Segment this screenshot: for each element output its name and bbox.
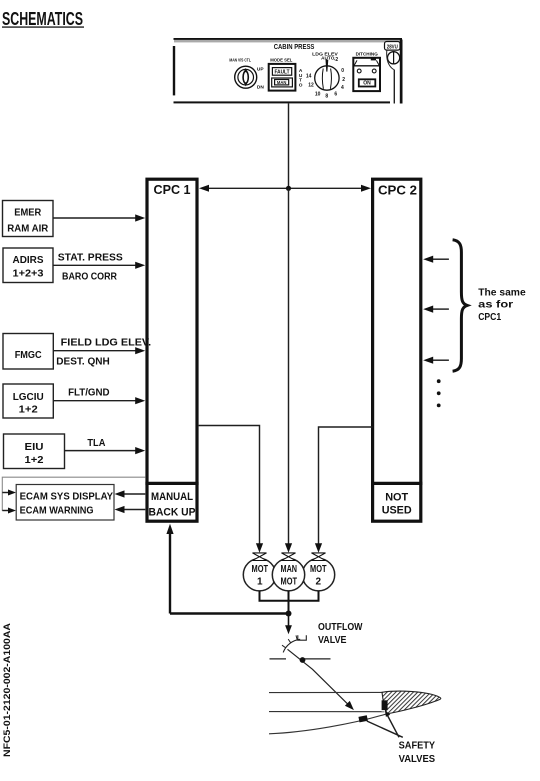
outflow valve arc — [282, 635, 306, 652]
svg-text:LGCIU: LGCIU — [13, 391, 44, 403]
svg-text:FLT/GND: FLT/GND — [68, 387, 110, 399]
svg-text:6: 6 — [334, 91, 337, 97]
svg-text:BARO CORR: BARO CORR — [62, 271, 117, 283]
panel inner right line — [394, 70, 395, 104]
panel frame bottom — [174, 101, 391, 103]
svg-text:14: 14 — [306, 74, 312, 80]
fuselage mid line — [269, 711, 385, 713]
wire junction to CPC1 — [199, 185, 289, 192]
panel 28VU label — [385, 42, 401, 51]
svg-text:MAN V/S CTL: MAN V/S CTL — [229, 58, 251, 64]
leader to safety valves — [367, 710, 403, 738]
wire MANUAL to ECAM upper — [115, 490, 146, 497]
wire LGCIU to CPC1 — [53, 397, 145, 404]
svg-text:OUTFLOW: OUTFLOW — [318, 621, 363, 633]
svg-text:4: 4 — [341, 85, 344, 91]
wire to outflow valve — [285, 614, 292, 635]
svg-text:1: 1 — [257, 577, 263, 588]
svg-text:2: 2 — [316, 577, 322, 588]
svg-text:SAFETY: SAFETY — [399, 739, 436, 751]
svg-text:MANUAL: MANUAL — [151, 491, 193, 503]
svg-text:MOT: MOT — [310, 564, 327, 575]
svg-text:FMGC: FMGC — [15, 349, 42, 361]
wire stub into ECAM upper — [2, 490, 16, 496]
svg-text:NOT: NOT — [385, 492, 408, 504]
switch MODE SEL — [269, 64, 296, 91]
svg-text:CPC 1: CPC 1 — [154, 182, 191, 197]
svg-text:The same: The same — [478, 286, 526, 298]
svg-text:DN: DN — [257, 84, 264, 90]
svg-text:O: O — [299, 82, 303, 88]
svg-text:28VU: 28VU — [387, 44, 398, 50]
svg-text:RAM AIR: RAM AIR — [7, 223, 48, 235]
label AUTO vertical — [299, 68, 303, 88]
outflow valve flap — [270, 649, 354, 710]
wire panel to junction — [288, 103, 290, 188]
svg-text:NFC5-01-2120-002-A100AA: NFC5-01-2120-002-A100AA — [2, 622, 12, 757]
switch DITCHING guard — [353, 58, 380, 91]
box EMER RAM AIR — [3, 201, 54, 237]
svg-text:8: 8 — [325, 94, 328, 100]
CPC2 box — [373, 179, 421, 521]
label OUTFLOW VALVE — [318, 621, 363, 646]
title SCHEMATICS — [2, 9, 84, 29]
CPC1 manual backup divider — [145, 482, 198, 485]
node junction — [286, 186, 291, 191]
svg-text:MOT: MOT — [252, 564, 269, 575]
fuselage bottom curve — [269, 714, 387, 734]
wire feedback bus — [170, 612, 289, 614]
svg-text:as for: as for — [478, 299, 513, 311]
label The same as for CPC1 — [478, 286, 526, 323]
svg-text:ON: ON — [363, 81, 371, 87]
svg-text:TLA: TLA — [87, 437, 105, 449]
wire CPC2 to MOT2 — [315, 427, 373, 553]
wire feedback to MANUAL — [166, 524, 173, 614]
svg-text:DEST. QNH: DEST. QNH — [56, 356, 110, 368]
panel frame right — [400, 40, 403, 104]
svg-text:DITCHING: DITCHING — [356, 51, 378, 57]
svg-text:ADIRS: ADIRS — [13, 254, 44, 266]
knob MAN V/S — [235, 66, 257, 88]
wire junction to MAN MOT — [285, 188, 292, 553]
valve MAN MOT — [282, 553, 296, 561]
grey group outline — [2, 477, 145, 511]
svg-text:VALVES: VALVES — [399, 753, 436, 765]
dots — [437, 379, 441, 407]
motor MOT2 — [302, 559, 334, 591]
svg-text:ECAM WARNING: ECAM WARNING — [20, 505, 94, 517]
svg-text:10: 10 — [315, 91, 321, 97]
tail cone hatched — [382, 691, 441, 714]
fuselage top line — [269, 691, 383, 693]
svg-text:MODE SEL: MODE SEL — [270, 58, 292, 64]
box FMGC — [3, 334, 53, 370]
wire FMGC to CPC1 — [53, 347, 145, 354]
panel frame left — [173, 46, 175, 95]
safety valve 2 — [358, 715, 367, 722]
panel frame top — [174, 38, 403, 42]
svg-text:FAULT: FAULT — [275, 70, 290, 76]
CPC1 box — [147, 179, 197, 521]
wire EMER to CPC1 — [53, 214, 145, 221]
svg-text:MAN: MAN — [281, 564, 298, 575]
svg-text:EMER: EMER — [14, 207, 41, 219]
svg-text:CABIN PRESS: CABIN PRESS — [274, 42, 315, 51]
svg-text:USED: USED — [382, 505, 412, 517]
svg-text:0: 0 — [341, 68, 344, 74]
wire CPC2 same arrows — [423, 256, 449, 364]
svg-text:EIU: EIU — [25, 441, 44, 453]
wire motor bus — [260, 591, 319, 614]
svg-text:UP: UP — [257, 66, 264, 72]
label SAFETY VALVES — [399, 739, 436, 764]
valve MOT2 — [312, 553, 326, 561]
wire ADIRS to CPC1 — [53, 262, 145, 269]
svg-text:MOT: MOT — [281, 577, 298, 588]
svg-text:1+2: 1+2 — [25, 454, 44, 466]
svg-text:FIELD LDG ELEV.: FIELD LDG ELEV. — [61, 336, 152, 348]
svg-text:2: 2 — [342, 77, 345, 83]
box ADIRS 1+2+3 — [3, 248, 53, 283]
label MOT 2 — [310, 564, 327, 588]
box EIU 1+2 — [4, 434, 65, 469]
svg-text:-2: -2 — [334, 57, 339, 63]
label MAN MOT — [281, 564, 298, 588]
svg-text:1+2: 1+2 — [19, 404, 38, 416]
valve MOT1 — [253, 553, 267, 561]
svg-text:ECAM SYS DISPLAY: ECAM SYS DISPLAY — [20, 490, 114, 502]
svg-text:12: 12 — [308, 83, 314, 89]
label NOT USED — [382, 492, 412, 517]
svg-text:BACK UP: BACK UP — [149, 507, 196, 519]
svg-text:CPC 2: CPC 2 — [378, 182, 417, 197]
svg-text:MAN: MAN — [277, 80, 287, 85]
knob LDG ELEV — [315, 60, 339, 91]
svg-text:CPC1: CPC1 — [478, 311, 501, 323]
node bus junction — [286, 611, 292, 617]
safety valve 1 — [382, 700, 388, 710]
wire MANUAL to ECAM lower — [115, 506, 146, 513]
wire junction to CPC2 — [289, 185, 372, 192]
motor MOT1 — [243, 559, 275, 591]
label MOT 1 — [252, 564, 269, 588]
CPC2 not used divider — [371, 482, 422, 485]
wire CPC1 to MOT1 — [199, 426, 264, 553]
svg-text:STAT. PRESS: STAT. PRESS — [58, 251, 123, 263]
box ECAM — [16, 485, 114, 521]
brace — [453, 240, 468, 372]
motor MAN MOT — [272, 559, 304, 591]
panel screw — [387, 50, 400, 69]
label MANUAL BACK UP — [149, 491, 196, 519]
box LGCIU 1+2 — [3, 384, 53, 418]
knob scale numbers — [306, 57, 345, 100]
svg-text:1+2+3: 1+2+3 — [13, 268, 44, 280]
svg-text:VALVE: VALVE — [318, 634, 347, 646]
wire stub into ECAM lower — [2, 508, 16, 514]
wire EIU to CPC1 — [65, 447, 146, 454]
